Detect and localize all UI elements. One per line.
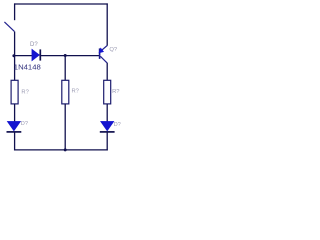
wire: right rail (top rail to transistor emitter) xyxy=(106,3,108,45)
LED D2 (left) cathode bar xyxy=(7,131,22,133)
switch SW lever xyxy=(4,22,14,32)
wire: mid horizontal (left rail to diode anode) xyxy=(15,55,33,57)
transistor Q1 emitter diagonal xyxy=(101,46,108,52)
svg-text:D?: D? xyxy=(21,121,28,127)
wire: diode cathode to transistor base xyxy=(41,55,99,57)
resistor R3 (right) body xyxy=(104,80,111,104)
wire: left rail middle (switch bottom to resistor) xyxy=(14,32,16,81)
transistor Q1 emitter arrow (PNP, points into base) xyxy=(99,48,105,54)
wire: left LED to bottom rail xyxy=(14,133,16,151)
svg-text:D?: D? xyxy=(114,122,121,128)
resistor R2 (middle) body xyxy=(62,80,69,104)
LED D3 (right) cathode bar xyxy=(100,131,115,133)
wire: right resistor to LED xyxy=(106,104,108,122)
node junction at left rail / mid wire xyxy=(12,54,15,57)
wire: left resistor to LED xyxy=(14,104,16,122)
LED D2 (left) triangle xyxy=(7,121,20,130)
node junction mid wire / mid branch xyxy=(64,54,67,57)
wire: collector to right resistor xyxy=(106,63,108,81)
node junction bottom rail / mid branch xyxy=(64,148,67,151)
transistor Q1 collector diagonal xyxy=(100,56,107,63)
svg-text:R?: R? xyxy=(21,90,29,96)
diode D1 cathode bar xyxy=(39,49,41,60)
diode D1 triangle xyxy=(32,49,40,61)
svg-text:D?: D? xyxy=(30,42,38,48)
wire: top rail xyxy=(14,3,108,5)
transistor Q1 base bar xyxy=(99,48,101,59)
svg-text:Q?: Q? xyxy=(109,47,118,53)
wire: mid resistor to bottom rail xyxy=(64,104,66,151)
LED D3 (right) triangle xyxy=(101,121,114,130)
wire: left rail upper (to switch top contact) xyxy=(14,3,16,20)
svg-text:1N4148: 1N4148 xyxy=(14,63,41,72)
wire: mid branch vertical to resistor xyxy=(64,56,66,81)
resistor R1 (left) body xyxy=(11,80,18,104)
wire: bottom rail xyxy=(14,149,108,151)
svg-text:R?: R? xyxy=(72,89,80,95)
wire: right LED to bottom rail xyxy=(106,133,108,151)
svg-text:R?: R? xyxy=(112,89,120,95)
